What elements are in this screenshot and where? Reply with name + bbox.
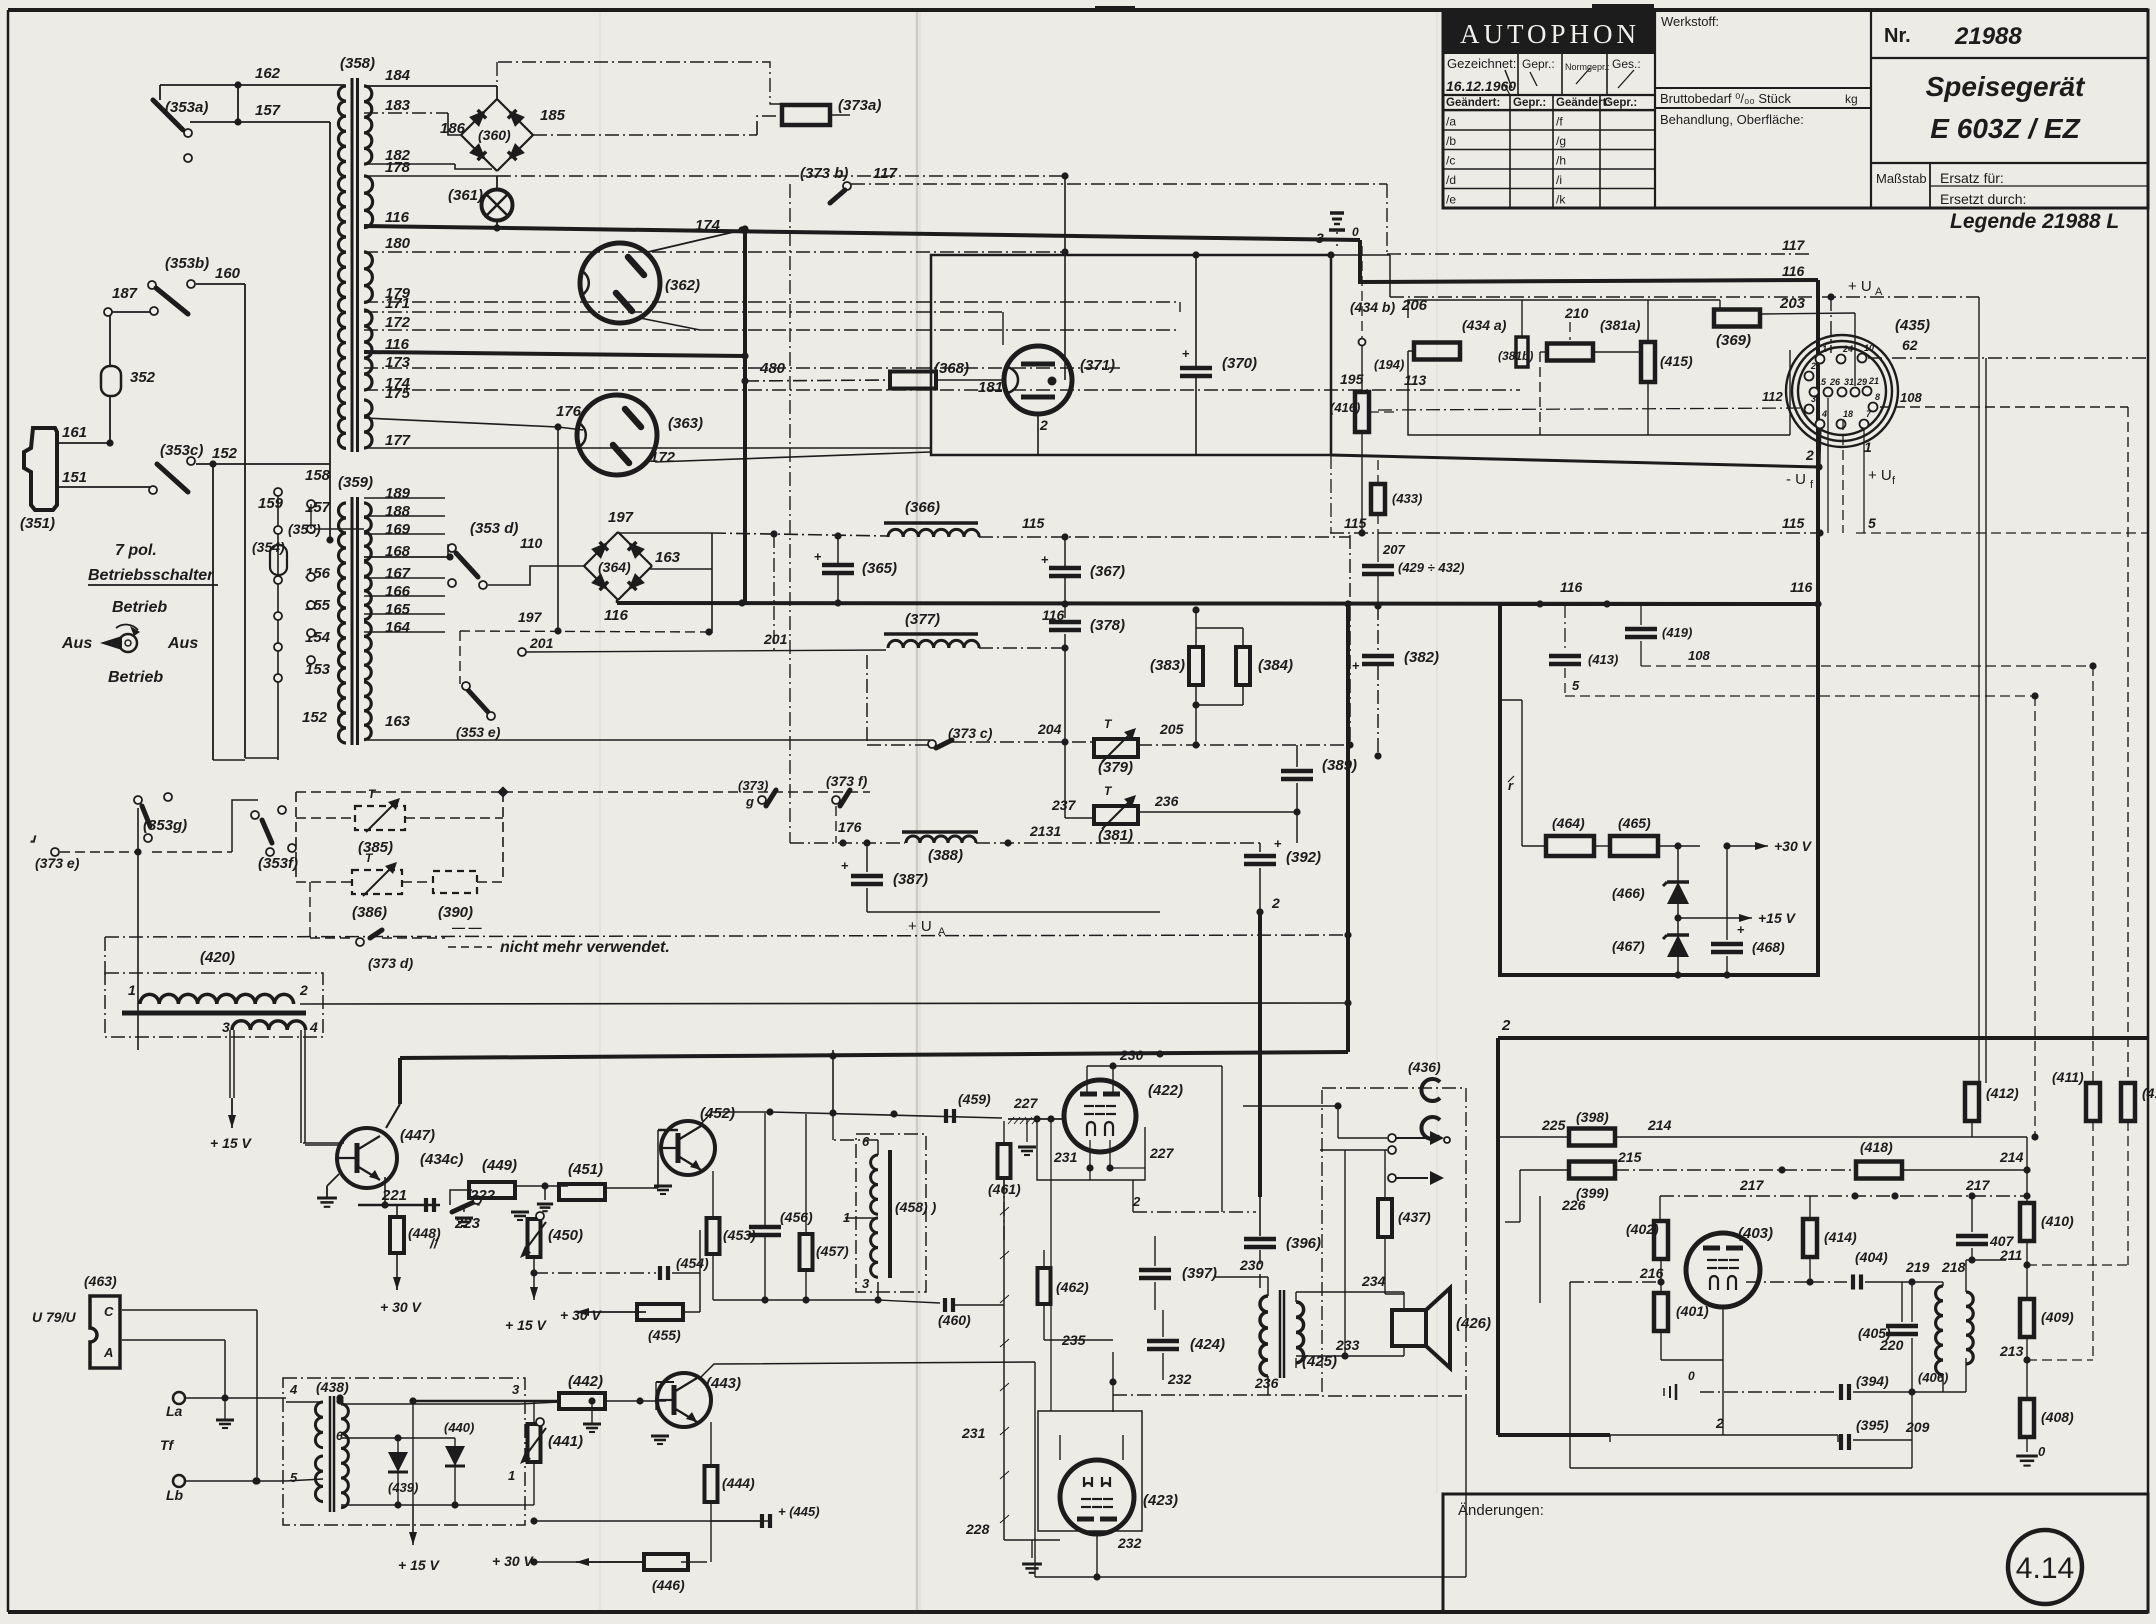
svg-text:(436): (436)	[1408, 1059, 1441, 1075]
svg-text:Lb: Lb	[166, 1487, 184, 1503]
svg-text:3: 3	[222, 1019, 230, 1035]
svg-text:+: +	[1737, 922, 1745, 937]
svg-text:(402): (402)	[1626, 1221, 1659, 1237]
svg-text:+ 15 V: + 15 V	[210, 1135, 253, 1151]
svg-text:219: 219	[1905, 1259, 1930, 1275]
svg-text:(446): (446)	[652, 1577, 685, 1593]
svg-text:(373 e): (373 e)	[35, 855, 80, 871]
svg-text:(455): (455)	[648, 1327, 681, 1343]
svg-text:108: 108	[1900, 390, 1922, 405]
svg-text:3: 3	[1316, 230, 1324, 246]
svg-text:(456): (456)	[780, 1209, 813, 1225]
svg-text:(443): (443)	[706, 1375, 741, 1392]
svg-text:110: 110	[520, 535, 543, 551]
svg-text:230: 230	[1239, 1257, 1264, 1273]
svg-text:116: 116	[604, 607, 629, 624]
svg-text:(457): (457)	[816, 1243, 849, 1259]
svg-text:g: g	[745, 794, 754, 809]
svg-text:(450): (450)	[548, 1227, 583, 1244]
svg-text:(447): (447)	[400, 1127, 435, 1144]
svg-text:(389): (389)	[1322, 757, 1357, 774]
svg-text:352: 352	[130, 369, 156, 386]
svg-text:/k: /k	[1556, 193, 1566, 207]
svg-text:(353c): (353c)	[160, 442, 203, 459]
svg-text:+: +	[1041, 552, 1049, 567]
svg-text:(353b): (353b)	[165, 255, 209, 272]
svg-text:15: 15	[1816, 377, 1827, 387]
svg-text:Speisegerät: Speisegerät	[1926, 71, 2086, 102]
svg-text:Nr.: Nr.	[1884, 25, 1911, 47]
svg-text:/c: /c	[1446, 154, 1455, 168]
svg-text:31: 31	[1844, 377, 1854, 387]
svg-text:164: 164	[385, 619, 411, 636]
svg-text:(418): (418)	[1860, 1139, 1893, 1155]
svg-text:115: 115	[1344, 515, 1367, 531]
svg-text:(373a): (373a)	[838, 97, 881, 114]
svg-text:(361): (361)	[448, 187, 483, 204]
svg-text:+ 30 V: + 30 V	[560, 1307, 603, 1323]
svg-text:227: 227	[1013, 1095, 1039, 1111]
svg-text:Änderungen:: Änderungen:	[1458, 1502, 1544, 1519]
svg-text:(351): (351)	[20, 515, 55, 532]
svg-text:232: 232	[1167, 1371, 1192, 1387]
svg-text:+ U: + U	[1868, 467, 1892, 484]
svg-text:+ (445): + (445)	[778, 1504, 820, 1519]
svg-text:(438): (438)	[316, 1379, 349, 1395]
svg-text:24: 24	[1842, 344, 1853, 354]
svg-text:233: 233	[1335, 1337, 1360, 1353]
svg-text:5: 5	[290, 1470, 298, 1485]
svg-text:(395): (395)	[1856, 1417, 1889, 1433]
svg-text:(403): (403)	[1738, 1225, 1773, 1242]
svg-text:237: 237	[1051, 797, 1077, 813]
svg-text:(381a): (381a)	[1600, 317, 1641, 333]
svg-text:(409): (409)	[2041, 1309, 2074, 1325]
svg-text:209: 209	[1905, 1419, 1930, 1435]
svg-text:Gepr.:: Gepr.:	[1604, 97, 1637, 109]
svg-text:La: La	[166, 1403, 183, 1419]
svg-text:(353 d): (353 d)	[470, 520, 518, 537]
svg-text:(394): (394)	[1856, 1373, 1889, 1389]
svg-text:234: 234	[1361, 1273, 1386, 1289]
svg-text:(439): (439)	[388, 1480, 418, 1495]
svg-text:161: 161	[62, 424, 87, 441]
svg-text:(397): (397)	[1182, 1265, 1217, 1282]
svg-text:1: 1	[128, 982, 136, 998]
svg-text:(386): (386)	[352, 904, 387, 921]
svg-text:Werkstoff:: Werkstoff:	[1661, 14, 1719, 29]
svg-text:/h: /h	[1556, 154, 1566, 168]
svg-text:108: 108	[1688, 648, 1710, 663]
svg-text:210: 210	[1564, 305, 1589, 321]
svg-text:3: 3	[862, 1276, 870, 1291]
svg-text:2: 2	[1810, 361, 1816, 371]
svg-text:214: 214	[1647, 1117, 1672, 1133]
svg-text:228: 228	[965, 1521, 990, 1537]
svg-text:3: 3	[1811, 394, 1816, 404]
svg-text:(401): (401)	[1676, 1303, 1709, 1319]
svg-text:6: 6	[862, 1134, 870, 1149]
svg-text:231: 231	[1053, 1149, 1078, 1165]
svg-text:2: 2	[1039, 417, 1048, 433]
svg-text:U 79/U: U 79/U	[32, 1309, 76, 1325]
svg-text:(369): (369)	[1716, 332, 1751, 349]
svg-text:211: 211	[1999, 1247, 2023, 1263]
svg-text:2: 2	[1715, 1415, 1724, 1431]
svg-text:186: 186	[440, 120, 466, 137]
svg-text:236: 236	[1154, 793, 1179, 809]
svg-text:116: 116	[1782, 263, 1805, 279]
svg-text:195: 195	[1340, 371, 1364, 387]
svg-text:115: 115	[1782, 515, 1805, 531]
svg-text:6: 6	[336, 1429, 343, 1443]
svg-text:166: 166	[385, 583, 411, 600]
svg-text:(467): (467)	[1612, 938, 1645, 954]
svg-text:159: 159	[258, 495, 284, 512]
svg-text:(460): (460)	[938, 1312, 971, 1328]
svg-text:217: 217	[1965, 1177, 1991, 1193]
svg-text:157: 157	[255, 102, 281, 119]
svg-text:226: 226	[1561, 1197, 1586, 1213]
svg-text:Aus: Aus	[61, 635, 92, 652]
svg-text:AUTOPHON: AUTOPHON	[1460, 19, 1640, 49]
svg-text:1: 1	[1864, 439, 1872, 455]
svg-text:(404): (404)	[1855, 1249, 1888, 1265]
svg-text:(464): (464)	[1552, 815, 1585, 831]
svg-text:+ U: + U	[1848, 278, 1872, 295]
svg-text:(420): (420)	[200, 949, 235, 966]
svg-text:(424): (424)	[1190, 1336, 1225, 1353]
svg-text:2: 2	[1501, 1017, 1511, 1034]
svg-text:(366): (366)	[905, 499, 940, 516]
svg-text:/e: /e	[1446, 193, 1456, 207]
svg-text:(426): (426)	[1456, 1315, 1491, 1332]
svg-text:(373 c): (373 c)	[948, 725, 993, 741]
svg-text:Ersatz für:: Ersatz für:	[1940, 170, 2004, 186]
svg-text:(365): (365)	[862, 560, 897, 577]
svg-text:10: 10	[1864, 343, 1874, 353]
svg-text:(379): (379)	[1098, 759, 1133, 776]
svg-text:(408): (408)	[2041, 1409, 2074, 1425]
svg-text:0: 0	[1352, 225, 1359, 239]
svg-text:225: 225	[1541, 1117, 1566, 1133]
svg-text:(468): (468)	[1752, 939, 1785, 955]
svg-text:(363): (363)	[668, 415, 703, 432]
svg-text:214: 214	[1999, 1149, 2024, 1165]
svg-text:(353 e): (353 e)	[456, 724, 501, 740]
svg-text:(422): (422)	[1148, 1082, 1183, 1099]
svg-text:(434 b): (434 b)	[1350, 299, 1395, 315]
svg-text:184: 184	[385, 67, 411, 84]
svg-text:207: 207	[1382, 542, 1405, 557]
svg-text:178: 178	[385, 159, 411, 176]
svg-text:(433): (433)	[1392, 491, 1422, 506]
svg-text:(360): (360)	[478, 127, 511, 143]
svg-text:183: 183	[385, 97, 411, 114]
svg-text:115: 115	[1022, 515, 1045, 531]
svg-text:188: 188	[385, 503, 411, 520]
svg-text:163: 163	[655, 549, 681, 566]
svg-text:3: 3	[512, 1382, 520, 1397]
svg-text:(373 f): (373 f)	[826, 773, 868, 789]
svg-text:7 pol.: 7 pol.	[115, 542, 157, 559]
svg-text:176: 176	[556, 403, 582, 420]
svg-text:/g: /g	[1556, 134, 1566, 148]
svg-text:(378): (378)	[1090, 617, 1125, 634]
svg-text:C: C	[104, 1304, 114, 1319]
svg-text:213: 213	[1999, 1343, 2024, 1359]
svg-text:Behandlung, Oberfläche:: Behandlung, Oberfläche:	[1660, 112, 1804, 127]
svg-text:(411): (411)	[2052, 1069, 2084, 1085]
svg-text:(412): (412)	[1986, 1085, 2019, 1101]
svg-text:(423): (423)	[1143, 1492, 1178, 1509]
svg-text:117: 117	[1782, 237, 1806, 253]
svg-text:21: 21	[1868, 376, 1879, 386]
svg-text:218: 218	[1941, 1259, 1966, 1275]
svg-text:- U: - U	[1786, 471, 1806, 488]
svg-text:(441): (441)	[548, 1433, 583, 1450]
svg-text:— —: — —	[451, 920, 483, 935]
svg-text:Bruttobedarf ⁰/₀₀ Stück: Bruttobedarf ⁰/₀₀ Stück	[1660, 91, 1791, 106]
svg-text:189: 189	[385, 485, 411, 502]
svg-text:162: 162	[255, 65, 281, 82]
svg-text:(392): (392)	[1286, 849, 1321, 866]
svg-text:(413): (413)	[1588, 652, 1618, 667]
svg-text:62: 62	[1902, 337, 1918, 353]
svg-text:Gepr.:: Gepr.:	[1513, 97, 1546, 109]
svg-text:+15 V: +15 V	[1758, 910, 1797, 926]
svg-text:4: 4	[309, 1019, 318, 1035]
svg-text:/i: /i	[1556, 173, 1562, 187]
svg-text:116: 116	[1790, 579, 1813, 595]
svg-text:+: +	[1182, 346, 1190, 361]
svg-text:177: 177	[385, 432, 411, 449]
svg-text:/a: /a	[1446, 115, 1456, 129]
svg-text:+: +	[841, 858, 849, 873]
svg-text:(449): (449)	[482, 1157, 517, 1174]
svg-text:4: 4	[289, 1382, 298, 1397]
svg-text:163: 163	[385, 713, 411, 730]
svg-text:A: A	[103, 1345, 113, 1360]
svg-text:(353a): (353a)	[165, 99, 208, 116]
svg-text:(415): (415)	[1660, 353, 1693, 369]
svg-text:203: 203	[1779, 295, 1806, 312]
svg-text:(382): (382)	[1404, 649, 1439, 666]
svg-text:2: 2	[1271, 895, 1280, 911]
svg-text:(388): (388)	[928, 847, 963, 864]
svg-text:Gezeichnet:: Gezeichnet:	[1447, 56, 1516, 71]
svg-text:0: 0	[2038, 1444, 2046, 1459]
svg-text:Geändert:: Geändert:	[1556, 97, 1610, 109]
svg-text:Legende 21988 L: Legende 21988 L	[1950, 210, 2119, 233]
svg-text:Betrieb: Betrieb	[108, 669, 163, 686]
svg-text:(381): (381)	[1098, 827, 1133, 844]
svg-text:A: A	[1875, 286, 1883, 298]
svg-text:+ 15 V: + 15 V	[398, 1557, 441, 1573]
svg-text:8: 8	[1875, 392, 1880, 402]
svg-text:(416): (416)	[1330, 400, 1360, 415]
svg-text:116: 116	[385, 209, 410, 226]
svg-text:(359): (359)	[338, 474, 373, 491]
svg-text:230: 230	[1119, 1047, 1144, 1063]
svg-text:E 603Z / EZ: E 603Z / EZ	[1930, 113, 2080, 144]
svg-text:235: 235	[1061, 1332, 1086, 1348]
svg-text:160: 160	[215, 265, 241, 282]
svg-text:(398): (398)	[1576, 1109, 1609, 1125]
svg-text:Maßstab: Maßstab	[1876, 171, 1927, 186]
svg-text:(383): (383)	[1150, 657, 1185, 674]
svg-text:(454): (454)	[676, 1255, 709, 1271]
svg-text:172: 172	[650, 449, 676, 466]
svg-text:171: 171	[385, 295, 410, 312]
svg-text:(367): (367)	[1090, 563, 1125, 580]
svg-text:(417): (417)	[2142, 1085, 2156, 1101]
svg-text:┛: ┛	[30, 835, 37, 848]
svg-text:(364): (364)	[598, 559, 631, 575]
svg-text:215: 215	[1617, 1149, 1642, 1165]
svg-text:+: +	[1352, 658, 1360, 673]
svg-text:1: 1	[1822, 344, 1827, 354]
svg-text:(362): (362)	[665, 277, 700, 294]
svg-text:Aus: Aus	[167, 635, 198, 652]
svg-text:/d: /d	[1446, 173, 1456, 187]
svg-text:(194): (194)	[1374, 357, 1404, 372]
svg-text:/b: /b	[1446, 134, 1456, 148]
svg-text:(371): (371)	[1080, 357, 1115, 374]
svg-text:+ 30 V: + 30 V	[492, 1553, 535, 1569]
svg-text:(384): (384)	[1258, 657, 1293, 674]
svg-text:231: 231	[961, 1425, 986, 1441]
svg-text:175: 175	[385, 385, 411, 402]
svg-text:165: 165	[385, 601, 411, 618]
svg-text:220: 220	[1879, 1337, 1904, 1353]
svg-text:(453): (453)	[723, 1227, 756, 1243]
svg-text:(373): (373)	[738, 778, 768, 793]
svg-text:29: 29	[1856, 377, 1867, 387]
svg-text:(370): (370)	[1222, 355, 1257, 372]
svg-text:+ U: + U	[908, 918, 932, 935]
svg-text:(406): (406)	[1918, 1370, 1948, 1385]
svg-text:(373 d): (373 d)	[368, 955, 413, 971]
svg-text:152: 152	[302, 709, 328, 726]
svg-text:187: 187	[112, 285, 138, 302]
svg-text:+: +	[814, 549, 822, 564]
svg-text:Betriebsschalter: Betriebsschalter	[88, 567, 214, 584]
svg-text:(444): (444)	[722, 1475, 755, 1491]
svg-text:(466): (466)	[1612, 885, 1645, 901]
svg-text:1: 1	[508, 1468, 515, 1483]
svg-text:5: 5	[1868, 515, 1876, 531]
svg-text:151: 151	[62, 469, 87, 486]
svg-text:(396): (396)	[1286, 1235, 1321, 1252]
svg-text:169: 169	[385, 521, 411, 538]
svg-text:180: 180	[385, 235, 411, 252]
svg-text:+: +	[1274, 836, 1282, 851]
svg-text:167: 167	[385, 565, 411, 582]
svg-text:/f: /f	[1556, 115, 1563, 129]
svg-text:+ 15 V: + 15 V	[505, 1317, 548, 1333]
svg-text:152: 152	[212, 445, 238, 462]
svg-text:480: 480	[759, 360, 786, 377]
svg-text:4.14: 4.14	[2016, 1552, 2074, 1585]
svg-text:2131: 2131	[1029, 823, 1061, 839]
svg-text:26: 26	[1829, 377, 1841, 387]
svg-text:227: 227	[1149, 1145, 1175, 1161]
svg-text:(429 ÷ 432): (429 ÷ 432)	[1398, 560, 1464, 575]
svg-text:(459): (459)	[958, 1091, 991, 1107]
svg-text:+ 30 V: + 30 V	[380, 1299, 423, 1315]
svg-text:(434 a): (434 a)	[1462, 317, 1507, 333]
svg-text:(385): (385)	[358, 839, 393, 856]
svg-text:201: 201	[529, 635, 554, 651]
svg-text:197: 197	[518, 609, 543, 625]
svg-text:(437): (437)	[1398, 1209, 1431, 1225]
svg-text:204: 204	[1037, 721, 1062, 737]
svg-text:Tf: Tf	[160, 1437, 175, 1453]
svg-text:217: 217	[1739, 1177, 1765, 1193]
svg-text:(373 b): (373 b)	[800, 165, 848, 182]
svg-text:158: 158	[305, 467, 331, 484]
svg-text:Betrieb: Betrieb	[112, 599, 167, 616]
svg-text:172: 172	[385, 314, 411, 331]
svg-text:(414): (414)	[1824, 1229, 1857, 1245]
svg-text:Gepr.:: Gepr.:	[1522, 57, 1555, 71]
svg-text:205: 205	[1159, 721, 1184, 737]
svg-text:(390): (390)	[438, 904, 473, 921]
svg-text:21988: 21988	[1954, 23, 2022, 50]
svg-text:181: 181	[978, 379, 1003, 396]
svg-text:nicht mehr verwendet.: nicht mehr verwendet.	[500, 939, 670, 956]
svg-text:(387): (387)	[893, 871, 928, 888]
svg-text:Ges.:: Ges.:	[1612, 57, 1641, 71]
svg-text:5: 5	[1572, 678, 1580, 693]
svg-text:(377): (377)	[905, 611, 940, 628]
svg-text:2: 2	[299, 982, 308, 998]
svg-text:117: 117	[873, 165, 898, 182]
svg-text:(368): (368)	[934, 360, 969, 377]
svg-text:Ersetzt durch:: Ersetzt durch:	[1940, 191, 2026, 207]
svg-text:197: 197	[608, 509, 634, 526]
svg-text:116: 116	[1560, 579, 1583, 595]
svg-text:112: 112	[1762, 389, 1783, 404]
svg-text:(354): (354)	[252, 539, 285, 555]
svg-text:(353f): (353f)	[258, 855, 298, 872]
svg-text:232: 232	[1117, 1535, 1142, 1551]
svg-text:+30 V: +30 V	[1774, 838, 1813, 854]
svg-text:(458) ): (458) )	[895, 1199, 937, 1215]
svg-text:(463): (463)	[84, 1273, 117, 1289]
svg-text:(465): (465)	[1618, 815, 1651, 831]
svg-text:(442): (442)	[568, 1373, 603, 1390]
svg-text:2: 2	[1805, 447, 1814, 463]
svg-text:(419): (419)	[1662, 625, 1692, 640]
svg-text:201: 201	[763, 631, 788, 647]
svg-text:185: 185	[540, 107, 566, 124]
svg-text:(451): (451)	[568, 1161, 603, 1178]
svg-text:(462): (462)	[1056, 1279, 1089, 1295]
svg-text:Geändert:: Geändert:	[1446, 97, 1500, 109]
svg-text:174: 174	[695, 217, 721, 234]
svg-text:(410): (410)	[2041, 1213, 2074, 1229]
svg-text:(358): (358)	[340, 55, 375, 72]
svg-text:4: 4	[1821, 409, 1827, 419]
svg-text:(434c): (434c)	[420, 1151, 463, 1168]
svg-text:18: 18	[1843, 409, 1853, 419]
svg-text:176: 176	[838, 819, 862, 835]
svg-text:kg: kg	[1845, 92, 1858, 106]
svg-text:(440): (440)	[444, 1420, 474, 1435]
svg-text:0: 0	[1688, 1369, 1695, 1383]
